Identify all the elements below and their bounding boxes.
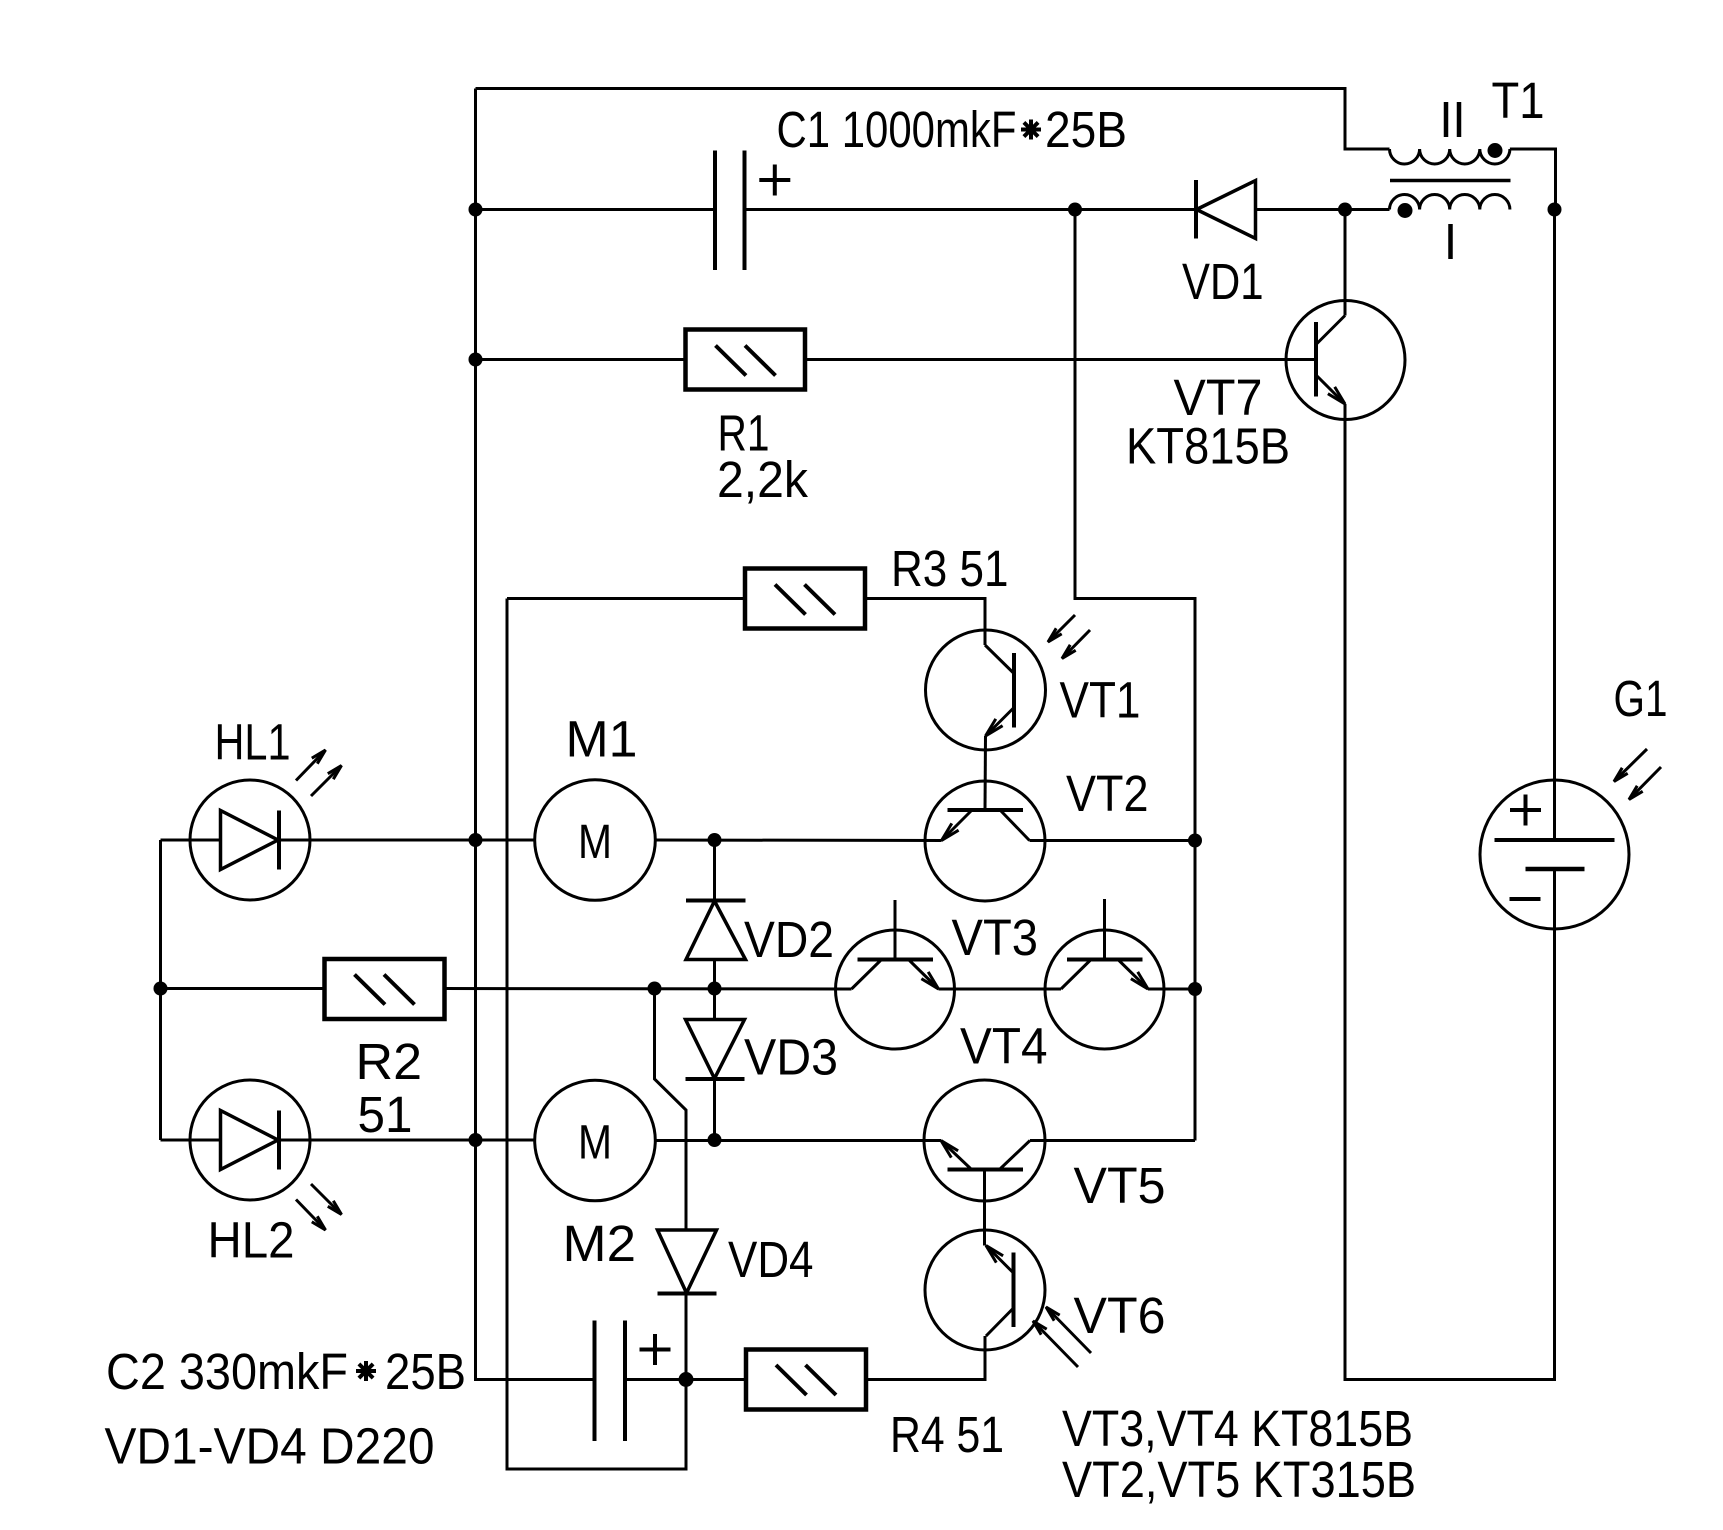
motor M1 xyxy=(535,780,656,901)
C1 label asterisk star xyxy=(1021,120,1041,140)
svg-text:25B: 25B xyxy=(1045,101,1127,158)
diode VD3 xyxy=(686,1020,745,1080)
node: M1 VD2 junction xyxy=(708,833,722,847)
T1 winding II polarity dot xyxy=(1488,143,1503,158)
svg-text:51: 51 xyxy=(358,1086,413,1143)
wire: HL1 to left rail xyxy=(279,839,476,842)
wire: C1 line left segment xyxy=(476,208,716,211)
resistor R4 xyxy=(746,1350,866,1410)
G1 light arrows xyxy=(1614,749,1661,800)
C2 label asterisk star xyxy=(356,1361,376,1381)
resistor R2 xyxy=(325,959,445,1019)
wire: R2 to VT3 collector xyxy=(445,987,852,991)
wire: VT1 emitter to VT2 base xyxy=(984,736,988,810)
wire: R4 to VT6 collector xyxy=(866,1336,985,1380)
diode VD4 xyxy=(658,1230,717,1294)
node: VD2 VD3 junction xyxy=(708,982,722,996)
wire: VD2 to mid line xyxy=(713,960,716,989)
wire: right rail winding I to G1 xyxy=(1553,210,1556,841)
svg-text:VT2,VT5 KT315B: VT2,VT5 KT315B xyxy=(1062,1451,1416,1508)
svg-text:25B: 25B xyxy=(385,1343,466,1400)
wire: R2 line left xyxy=(161,987,325,990)
transistor VT4 xyxy=(1045,899,1164,1049)
wire: HL2 to left rail xyxy=(279,1139,476,1142)
node: C1 left rail junction xyxy=(469,203,483,217)
svg-text:VT5: VT5 xyxy=(1074,1157,1166,1214)
T1 winding I polarity dot xyxy=(1398,203,1413,218)
svg-text:M2: M2 xyxy=(563,1215,637,1272)
wire: VT2 collector to right rail xyxy=(1030,839,1196,842)
svg-text:R2: R2 xyxy=(356,1033,423,1090)
node: C2 VD4 R4 junction xyxy=(679,1372,694,1387)
VT6 light arrows xyxy=(1033,1307,1091,1367)
C2 polarity plus xyxy=(640,1334,671,1365)
solar battery G1 xyxy=(1480,780,1629,929)
C1 polarity plus xyxy=(759,165,790,196)
node: HL1 M1 left rail junction xyxy=(469,833,483,847)
svg-text:R4 51: R4 51 xyxy=(890,1406,1004,1463)
wire: VT4 emitter to right rail xyxy=(1148,988,1195,991)
G1 minus sign xyxy=(1510,897,1541,901)
transistor VT1 (photo) xyxy=(926,630,1046,750)
wire: M1 to VT2 emitter xyxy=(655,839,942,843)
svg-text:HL1: HL1 xyxy=(215,714,291,771)
resistor R3 xyxy=(745,569,865,629)
node: VD1 winding I VT7 junction xyxy=(1338,203,1352,217)
wire: VD4 to C2 junction xyxy=(685,1294,688,1381)
svg-text:T1: T1 xyxy=(1492,72,1545,129)
node: VD3 M2 line junction xyxy=(708,1133,722,1147)
wire: inner box left rail and bottom xyxy=(507,599,686,1470)
svg-text:VD4: VD4 xyxy=(728,1231,814,1288)
LED HL2 xyxy=(190,1080,310,1200)
wire: winding II right lead down xyxy=(1510,149,1556,210)
node: mid line branch junction xyxy=(648,982,662,996)
transistor VT5 xyxy=(924,1080,1045,1201)
wire: VT5 collector to right rail corner xyxy=(1030,1139,1195,1142)
diode VD2 xyxy=(686,901,746,960)
wire: R1 line left xyxy=(476,358,686,361)
wire: C1 line middle segment xyxy=(745,208,1197,211)
label winding I xyxy=(1448,224,1453,259)
wire: mid line to VD3 xyxy=(713,989,716,1020)
wire: top rail to transformer xyxy=(476,89,1390,150)
svg-text:VD2: VD2 xyxy=(744,911,834,968)
motor M2 xyxy=(535,1080,656,1201)
wire: C2 right plate to junction xyxy=(625,1378,686,1381)
svg-text:VD1: VD1 xyxy=(1182,253,1264,310)
label winding II xyxy=(1446,102,1459,137)
capacitor C2 xyxy=(595,1321,626,1442)
node: VT2 collector right rail junction xyxy=(1188,834,1202,848)
wire: VD1 to winding I junction xyxy=(1256,208,1390,211)
resistor R1 xyxy=(686,330,806,390)
label C2 value xyxy=(106,1343,466,1400)
wire: link from C1 line down and right to inner box right rail xyxy=(1075,210,1195,1141)
svg-text:VD1-VD4 D220: VD1-VD4 D220 xyxy=(105,1418,435,1475)
wire: left power rail xyxy=(476,89,595,1380)
wire: HL rail left vertical xyxy=(159,840,162,1140)
svg-text:KT815B: KT815B xyxy=(1126,418,1290,475)
svg-text:R3 51: R3 51 xyxy=(891,540,1009,597)
node: C1 right junction xyxy=(1068,203,1082,217)
wire: M2 to VT5 emitter xyxy=(655,1139,941,1142)
T1 core xyxy=(1390,179,1511,183)
transistor VT7 xyxy=(1286,301,1405,420)
wire: VT5 base to VT6 emitter xyxy=(983,1170,986,1246)
HL1 light arrows xyxy=(296,750,342,796)
node: winding I right rail junction xyxy=(1548,203,1562,217)
svg-text:C2 330mkF: C2 330mkF xyxy=(106,1343,348,1400)
wire: VT7 emitter down, bottom link to right rail xyxy=(1345,404,1555,1380)
svg-text:M: M xyxy=(578,816,612,869)
svg-text:M: M xyxy=(578,1117,612,1170)
HL2 light arrows xyxy=(296,1184,342,1230)
svg-text:G1: G1 xyxy=(1614,670,1668,727)
node: HL2 M2 left rail junction xyxy=(469,1133,483,1147)
node: R1 left rail junction xyxy=(469,353,483,367)
wire: M2 line left xyxy=(476,1139,536,1142)
svg-text:VT1: VT1 xyxy=(1060,672,1141,729)
wire: VD3 to M2 line xyxy=(713,1079,716,1140)
transistor VT6 (photo) xyxy=(925,1230,1045,1350)
G1 plus sign xyxy=(1510,795,1541,826)
wire: VD2 link from M1 line xyxy=(713,840,716,901)
LED HL1 xyxy=(190,780,310,900)
wire: junction to R4 xyxy=(686,1378,746,1381)
capacitor C1 xyxy=(715,151,745,271)
node: R2 HL rail junction xyxy=(154,982,168,996)
transformer T1 winding I xyxy=(1390,195,1510,210)
transistor VT2 xyxy=(925,781,1045,901)
transistor VT3 xyxy=(836,900,955,1049)
wire: M1 line left xyxy=(476,839,536,842)
wire: branch from mid line with jog down to VD4 xyxy=(655,989,687,1231)
label C1 value xyxy=(777,101,1128,158)
wire: R1 line right to VT7 base xyxy=(805,358,1316,361)
svg-text:VT4: VT4 xyxy=(960,1018,1048,1075)
node: VT4 emitter right rail junction xyxy=(1188,982,1202,996)
svg-text:VD3: VD3 xyxy=(744,1029,838,1086)
diode VD1 xyxy=(1196,180,1256,239)
wire: HL2 line left of LED xyxy=(161,1139,221,1142)
wire: VT3 emitter to VT4 collector xyxy=(939,988,1062,991)
svg-text:2,2k: 2,2k xyxy=(717,451,808,508)
VT1 light arrows xyxy=(1048,615,1090,659)
svg-text:M1: M1 xyxy=(566,711,638,768)
wire: R3 to VT1 base corner xyxy=(865,599,985,646)
svg-text:HL2: HL2 xyxy=(208,1212,295,1269)
wire: HL1 line left of LED xyxy=(161,839,221,842)
svg-text:VT6: VT6 xyxy=(1074,1287,1166,1344)
wire: R3 line from inner-left rail xyxy=(507,597,745,600)
svg-text:VT2: VT2 xyxy=(1066,765,1149,822)
transformer T1 winding II xyxy=(1390,149,1510,164)
wire: VT7 collector from VD1 junction xyxy=(1344,210,1347,316)
svg-text:C1 1000mkF: C1 1000mkF xyxy=(777,101,1017,158)
svg-text:VT3: VT3 xyxy=(952,909,1039,966)
svg-text:VT3,VT4 KT815B: VT3,VT4 KT815B xyxy=(1062,1400,1413,1457)
